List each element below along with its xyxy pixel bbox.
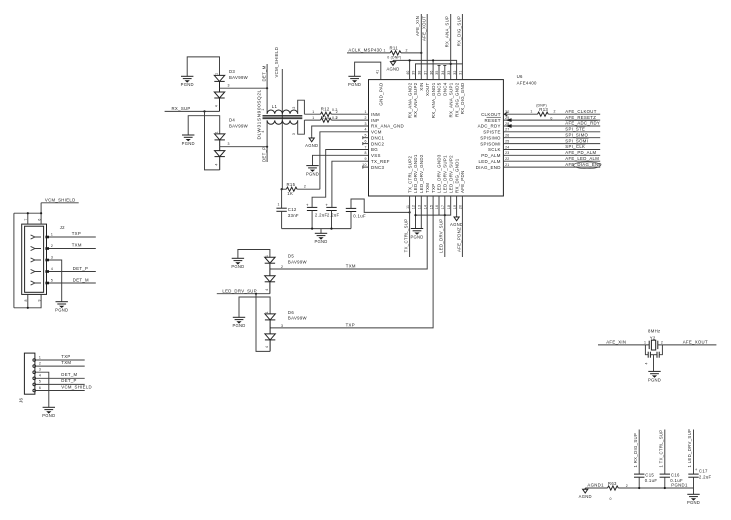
svg-text:SPISTE: SPISTE: [483, 130, 501, 135]
svg-text:DET_M: DET_M: [61, 372, 77, 377]
wire J6 pin4 DET_M: [36, 372, 85, 378]
svg-text:5: 5: [51, 278, 53, 282]
svg-text:8: 8: [364, 151, 366, 155]
svg-text:2: 2: [39, 361, 41, 365]
svg-text:0.1uF: 0.1uF: [353, 214, 366, 219]
ground AGND pin3: [305, 137, 318, 148]
capacitor crystal load left: [645, 345, 654, 365]
svg-text:R13: R13: [539, 107, 548, 112]
svg-text:INM: INM: [371, 112, 380, 117]
svg-text:RX_ANA_SUP2: RX_ANA_SUP2: [413, 82, 418, 117]
U6 DNC3 pin10 stub: [363, 166, 369, 169]
svg-text:33nF: 33nF: [288, 213, 299, 218]
node RX_SUP: [165, 106, 220, 112]
ground AGND pin19: [450, 216, 463, 227]
wire D4 top jog to PGND: [188, 116, 220, 135]
svg-text:AFE_XOUT: AFE_XOUT: [421, 16, 426, 41]
svg-text:RX_ANA_SUP: RX_ANA_SUP: [445, 16, 450, 48]
svg-text:1: 1: [214, 73, 218, 75]
svg-text:2: 2: [364, 116, 366, 120]
wire RX_ANA_GND pin3 to AGND: [312, 126, 369, 137]
svg-text:R14: R14: [321, 115, 330, 120]
wire J6 pin3 to PGND: [36, 368, 49, 408]
svg-text:0 (DNP): 0 (DNP): [387, 56, 401, 60]
node LED_DRV_SUP rail: [217, 288, 270, 295]
svg-text:GND_PAD: GND_PAD: [379, 83, 384, 106]
J2 socket pin 4: [31, 269, 49, 273]
wire pin22 AFE_LED_ALM: [503, 156, 600, 161]
U6 top pin names: [379, 82, 466, 118]
wire L1 pin2 jog to R12: [298, 100, 305, 114]
svg-text:2: 2: [554, 110, 556, 114]
svg-text:2: 2: [626, 484, 628, 488]
svg-text:1: 1: [644, 340, 646, 344]
resistor R11 0 (DNP): [384, 45, 423, 59]
svg-text:2.2uF: 2.2uF: [699, 475, 712, 480]
svg-text:21: 21: [505, 163, 509, 167]
svg-text:1: 1: [530, 110, 532, 114]
svg-text:AFE_LED_ALM: AFE_LED_ALM: [565, 156, 599, 161]
U6 DNC1 pin5 stub: [363, 136, 369, 139]
svg-text:TXP: TXP: [346, 323, 355, 328]
svg-text:AFE_CLKOUT: AFE_CLKOUT: [565, 109, 596, 114]
svg-text:ADC_RDY: ADC_RDY: [478, 124, 501, 129]
capacitor C11 0.1uF: [346, 199, 411, 229]
svg-text:3: 3: [39, 368, 41, 372]
svg-text:3: 3: [364, 122, 366, 126]
svg-text:TXM: TXM: [346, 264, 356, 269]
wire pin25 SPI_SOMI: [503, 138, 600, 143]
svg-text:DNC3: DNC3: [371, 165, 384, 170]
svg-text:0: 0: [610, 497, 612, 501]
svg-text:VCM_SHIELD: VCM_SHIELD: [274, 47, 279, 78]
U6 left pin names: [371, 112, 404, 170]
svg-text:RESET: RESET: [485, 118, 501, 123]
svg-text:C16: C16: [671, 473, 680, 478]
U6 top pin numbers: [375, 70, 462, 75]
svg-text:TX_CTRL_SUP2: TX_CTRL_SUP2: [407, 155, 412, 193]
svg-text:TXP: TXP: [72, 231, 81, 236]
connector J6: [19, 353, 35, 403]
svg-text:22: 22: [505, 157, 509, 161]
wire L1 pin3 jog to R14: [298, 120, 305, 134]
svg-text:VCM_SHIELD: VCM_SHIELD: [45, 198, 76, 203]
svg-text:C12: C12: [288, 207, 297, 212]
ground AGND top rail: [386, 60, 399, 71]
diode D4 BAV99W: [215, 118, 249, 170]
wire VSS pin8 to PGND: [313, 155, 369, 165]
svg-text:INP: INP: [371, 118, 379, 123]
svg-text:1: 1: [51, 232, 53, 236]
svg-text:RX_DIG_SUP: RX_DIG_SUP: [456, 16, 461, 46]
ground PGND below U6: [410, 229, 423, 240]
U6 DNC5 pin35 stub: [438, 66, 441, 80]
ground PGND D4: [182, 135, 195, 146]
diode D3 BAV99W: [214, 69, 248, 111]
svg-text:3: 3: [292, 133, 296, 135]
svg-text:RX_ANA_GND: RX_ANA_GND: [371, 124, 404, 129]
node DET_P: [261, 120, 267, 162]
svg-text:AFE_XIN: AFE_XIN: [415, 16, 420, 36]
svg-text:24: 24: [505, 145, 509, 149]
svg-text:DIAG_END: DIAG_END: [476, 165, 501, 170]
svg-text:1: 1: [215, 131, 219, 133]
svg-text:VCM: VCM: [371, 130, 382, 135]
svg-text:LED_DRV_GND1: LED_DRV_GND1: [413, 154, 418, 193]
wire D3 top loop to PGND: [187, 57, 219, 76]
node VCM_SHIELD at J2: [41, 198, 79, 203]
ground PGND D3: [181, 76, 194, 87]
svg-text:TXM: TXM: [425, 183, 430, 193]
wire J2 pin4 DET_P: [49, 266, 96, 272]
svg-text:25: 25: [505, 139, 509, 143]
svg-text:LED_DRV_GND3: LED_DRV_GND3: [437, 154, 442, 193]
svg-text:1: 1: [265, 311, 269, 313]
svg-text:+: +: [306, 202, 309, 207]
svg-text:4: 4: [51, 267, 53, 271]
IC U6 AFE4400: [369, 74, 538, 196]
svg-text:C15: C15: [645, 473, 654, 478]
wire D6 top jog to PGND: [239, 294, 270, 318]
ground PGND rail: [314, 233, 327, 244]
ground PGND VSS: [306, 166, 319, 177]
J2 socket pin 2: [31, 246, 49, 250]
svg-text:5: 5: [364, 134, 366, 138]
wire LED supply rail below U6: [414, 196, 450, 229]
svg-text:VCM_SHIELD: VCM_SHIELD: [61, 384, 92, 389]
svg-text:C17: C17: [699, 469, 708, 474]
svg-text:LED_ALM: LED_ALM: [479, 159, 501, 164]
capacitor C17 2.2uF: [688, 467, 711, 488]
svg-text:L1: L1: [272, 104, 278, 109]
wire pin24 SPI_CLK: [503, 144, 600, 149]
ground PGND J2 pin3: [55, 302, 68, 313]
svg-text:1 RX_DIG_SUP: 1 RX_DIG_SUP: [633, 433, 638, 468]
node AFE_XOUT at crystal: [658, 340, 717, 345]
svg-text:2.2uF: 2.2uF: [327, 212, 340, 217]
svg-text:8: 8: [24, 299, 28, 301]
svg-text:RX_DIG_GND1: RX_DIG_GND1: [454, 158, 459, 193]
wire AGND rail top: [393, 59, 457, 79]
svg-text:1: 1: [265, 255, 269, 257]
capacitor crystal load right: [654, 345, 663, 358]
svg-text:1: 1: [384, 49, 386, 53]
svg-text:DET_M: DET_M: [261, 65, 266, 81]
svg-text:4: 4: [215, 163, 219, 165]
svg-text:BAV99W: BAV99W: [229, 75, 249, 80]
svg-text:3: 3: [281, 324, 283, 328]
node RX_DIG_SUP: [456, 14, 462, 64]
svg-text:4: 4: [261, 131, 265, 133]
inductor L1 DLW31SN900SQ2L common-mode choke: [256, 89, 302, 139]
svg-text:Y2: Y2: [650, 335, 656, 340]
svg-text:+: +: [695, 467, 698, 472]
wire D5 top loop to PGND: [238, 250, 270, 259]
ground PGND bottom right: [687, 494, 700, 505]
svg-text:R11: R11: [390, 45, 399, 50]
svg-text:DNC5: DNC5: [437, 82, 442, 95]
wire TXP pin15 to D6: [270, 196, 433, 328]
J2 socket pin 3: [31, 258, 49, 262]
svg-text:41: 41: [375, 70, 379, 74]
svg-text:TXP: TXP: [431, 184, 436, 194]
svg-text:4: 4: [364, 128, 366, 132]
U6 right pin names: [476, 112, 501, 170]
svg-text:AFE4400: AFE4400: [517, 81, 537, 86]
svg-text:+: +: [325, 202, 328, 207]
svg-text:23: 23: [505, 151, 509, 155]
svg-text:PD_ALM: PD_ALM: [481, 153, 501, 158]
svg-text:0.1uF: 0.1uF: [645, 478, 658, 483]
U6 right pin numbers: [505, 110, 509, 167]
svg-text:2: 2: [406, 49, 408, 53]
svg-text:XIN: XIN: [419, 83, 424, 91]
node AFE_XIN: [415, 14, 421, 80]
svg-text:6: 6: [39, 386, 41, 390]
svg-text:SCLK: SCLK: [488, 147, 501, 152]
wire D3 tap to DET_M: [220, 84, 269, 90]
node VCM_SHIELD vertical: [274, 47, 283, 189]
wire pin27 SPI_STE: [503, 126, 600, 131]
svg-text:R15: R15: [287, 182, 296, 187]
svg-text:RX_SUP: RX_SUP: [172, 106, 191, 111]
J2 socket pin 5: [31, 281, 49, 285]
svg-text:DNC2: DNC2: [371, 141, 384, 146]
U6 DNC2 pin6 stub: [363, 142, 369, 145]
node LED_DRV_SUP stub pin17: [439, 196, 445, 257]
svg-text:ACLK_MSP430: ACLK_MSP430: [348, 48, 382, 53]
svg-text:1: 1: [312, 110, 314, 114]
svg-text:AGND1: AGND1: [587, 482, 604, 487]
U6 left pin numbers: [362, 110, 366, 167]
wire GND_PAD pin41 to PGND: [355, 62, 381, 80]
wire BG pin7 to cap: [312, 150, 368, 208]
ground PGND crystal: [648, 371, 661, 382]
node ACLK_MSP430: [347, 48, 390, 53]
svg-text:TX_CTRL_SUP: TX_CTRL_SUP: [403, 219, 408, 253]
svg-text:SPI_STE: SPI_STE: [565, 127, 585, 132]
wire J6 pin5 DET_P: [36, 378, 85, 384]
resistor R15 1K: [281, 182, 320, 196]
svg-text:LED_DRV_SUP1: LED_DRV_SUP1: [443, 155, 448, 193]
U6 bottom pin names: [407, 154, 465, 193]
svg-text:BAV99W: BAV99W: [229, 123, 249, 128]
resistor R63 0: [608, 481, 628, 501]
svg-text:1 TX_CTRL_SUP: 1 TX_CTRL_SUP: [659, 430, 664, 468]
svg-text:7: 7: [24, 219, 28, 221]
svg-text:5: 5: [39, 380, 41, 384]
svg-text:6: 6: [364, 139, 366, 143]
svg-text:D6: D6: [288, 310, 294, 315]
node RX_DIG_SUP decoupling: [633, 430, 639, 475]
svg-text:2: 2: [661, 340, 663, 344]
wire J2 pin5 DET_M: [49, 278, 96, 284]
wire RX supply rail top: [416, 63, 463, 80]
wire J6 pin2 TXM: [36, 360, 85, 366]
svg-text:1: 1: [261, 109, 265, 111]
wire pin26 SPI_SIMO: [503, 132, 600, 137]
svg-text:2: 2: [292, 107, 296, 109]
svg-text:2: 2: [304, 185, 306, 189]
wire pin21 AFE_DIAG_END: [503, 162, 601, 169]
capacitor C12 33nF: [276, 189, 299, 228]
node RX_ANA_SUP: [445, 14, 451, 64]
capacitor C13 2.2uF: [306, 202, 328, 228]
node AGND1: [585, 482, 607, 488]
ground AGND bottom left: [579, 488, 592, 499]
wire J2 shield bottom: [14, 294, 41, 309]
ground PGND D6: [232, 317, 245, 328]
crystal Y2 8MHz: [648, 328, 661, 350]
svg-text:DET_P: DET_P: [61, 378, 76, 383]
svg-text:2: 2: [51, 244, 53, 248]
svg-text:1: 1: [278, 202, 280, 206]
svg-text:RX_DIG_GND2: RX_DIG_GND2: [454, 82, 459, 117]
svg-text:SPI_SIMO: SPI_SIMO: [565, 132, 588, 137]
svg-text:DNC4: DNC4: [443, 82, 448, 95]
svg-text:D5: D5: [288, 254, 294, 259]
svg-text:6: 6: [37, 219, 41, 221]
svg-text:J6: J6: [19, 398, 24, 403]
svg-text:D3: D3: [229, 69, 235, 74]
wire J6 pin1 TXP: [36, 354, 85, 360]
wire J6 pin6 VCM_SHIELD: [36, 384, 92, 390]
svg-text:26: 26: [505, 134, 509, 138]
svg-text:2: 2: [336, 116, 338, 120]
svg-text:R12: R12: [321, 106, 330, 111]
ground PGND J6 pin3: [42, 407, 55, 418]
wire J2 pin1 TXP: [49, 231, 96, 237]
node TX_CTRL_SUP stub pin11: [403, 196, 409, 257]
svg-text:DET_P: DET_P: [73, 266, 88, 271]
wire J2 shield left loop: [13, 213, 15, 308]
svg-text:SPISOMI: SPISOMI: [480, 141, 501, 146]
svg-text:DET_P: DET_P: [261, 147, 266, 162]
capacitor C15 0.1uF: [634, 473, 657, 488]
wire J2 pin2 TXM: [49, 243, 96, 249]
svg-text:1: 1: [39, 355, 41, 359]
wire decoupling ground rail: [282, 228, 351, 234]
svg-text:TX_REF: TX_REF: [371, 159, 390, 164]
node TX_CTRL_SUP decoupling: [659, 430, 665, 475]
svg-text:3: 3: [51, 255, 53, 259]
svg-text:BG: BG: [371, 147, 378, 152]
svg-text:TXM: TXM: [61, 360, 71, 365]
svg-text:LED_DRV_SUP: LED_DRV_SUP: [439, 219, 444, 254]
svg-text:LED_DRV_SUP: LED_DRV_SUP: [222, 288, 257, 293]
node AFE_XOUT: [421, 14, 427, 80]
wire D4 tap to DET_P: [220, 142, 269, 148]
svg-text:LED_DRV_GND2: LED_DRV_GND2: [419, 154, 424, 193]
svg-text:RX_ANA_GND2: RX_ANA_GND2: [407, 82, 412, 118]
connector J2: [22, 224, 65, 294]
svg-text:CLKOUT: CLKOUT: [481, 112, 501, 117]
J2 socket pin 1: [31, 235, 49, 239]
svg-text:9: 9: [37, 299, 41, 301]
svg-text:BAV99W: BAV99W: [288, 316, 308, 321]
resistor R12 0.2: [304, 106, 368, 116]
svg-text:1K: 1K: [287, 191, 293, 196]
svg-text:4: 4: [214, 105, 218, 107]
svg-text:2.2uF: 2.2uF: [315, 212, 328, 217]
wire crystal caps to PGND: [653, 355, 655, 372]
svg-text:AFE_PDNZ: AFE_PDNZ: [456, 227, 461, 252]
wire TXM pin14 to D5: [270, 196, 427, 269]
svg-text:AFE_PD_ALM: AFE_PD_ALM: [565, 150, 596, 155]
wire J2 shield top: [14, 203, 42, 224]
svg-text:SPI_SOMI: SPI_SOMI: [565, 138, 588, 143]
svg-text:4: 4: [265, 346, 269, 348]
capacitor C14 2.2uF: [325, 202, 339, 228]
svg-text:TXM: TXM: [72, 243, 82, 248]
U6 DNC4 pin34 stub: [443, 66, 446, 80]
svg-text:PGND1: PGND1: [671, 483, 688, 488]
resistor R13 0 (DNP): [530, 104, 600, 121]
svg-text:4: 4: [39, 374, 41, 378]
svg-text:3: 3: [228, 142, 230, 146]
svg-text:DET_M: DET_M: [73, 278, 89, 283]
svg-text:RX_ANA_SUP1: RX_ANA_SUP1: [448, 82, 453, 117]
svg-text:4: 4: [265, 289, 269, 291]
node AFE_PDNZ stub pin20: [456, 196, 462, 257]
svg-text:2: 2: [281, 265, 283, 269]
svg-text:2: 2: [336, 110, 338, 114]
diode D6 BAV99W: [265, 310, 308, 352]
svg-text:1: 1: [312, 116, 314, 120]
svg-text:VSS: VSS: [371, 153, 381, 158]
node DET_M: [261, 64, 267, 114]
wire pin28 AFE_ADC_RDY: [503, 121, 600, 128]
svg-text:AFE_XOUT: AFE_XOUT: [683, 340, 708, 345]
svg-text:D4: D4: [229, 118, 235, 123]
svg-text:BAV99W: BAV99W: [288, 259, 308, 264]
svg-text:SPI_CLK: SPI_CLK: [565, 144, 585, 149]
wire pin19 to AGND: [456, 196, 458, 216]
ground PGND D5: [231, 258, 244, 269]
svg-text:LED_DRV_SUP2: LED_DRV_SUP2: [448, 155, 453, 193]
svg-text:AFE_RESETZ: AFE_RESETZ: [565, 115, 596, 120]
svg-text:AFE_ADC_RDY: AFE_ADC_RDY: [565, 121, 600, 126]
svg-text:XOUT: XOUT: [425, 83, 430, 96]
svg-text:RX_ANA_GND1: RX_ANA_GND1: [431, 82, 436, 118]
ground PGND pin41: [348, 76, 361, 87]
J6 pin circles: [33, 359, 36, 392]
svg-text:SPISIMO: SPISIMO: [480, 135, 501, 140]
wire D6 bottom loop to LED_DRV_SUP: [256, 294, 270, 352]
wire pin29 AFE_RESETZ: [503, 115, 600, 122]
node AFE_XIN at crystal: [598, 340, 649, 345]
svg-text:J2: J2: [60, 225, 65, 230]
node LED_DRV_SUP decoupling: [687, 429, 693, 474]
resistor R14 0.2: [304, 115, 368, 122]
svg-text:TXP: TXP: [61, 354, 70, 359]
svg-text:4: 4: [645, 362, 649, 364]
svg-text:7: 7: [364, 145, 366, 149]
svg-text:8MHz: 8MHz: [648, 328, 661, 333]
wire VCM pin4 to R15: [320, 132, 369, 189]
svg-text:3: 3: [228, 84, 230, 88]
diode D5 BAV99W: [265, 254, 308, 294]
svg-text:DNC1: DNC1: [371, 135, 384, 140]
svg-text:RX_DIG_GND: RX_DIG_GND: [460, 83, 465, 115]
wire PGND1 rail: [618, 483, 693, 495]
svg-text:R63: R63: [608, 481, 617, 486]
wire pin30 CLKOUT: [503, 112, 537, 116]
svg-text:AFE_PDN: AFE_PDN: [460, 171, 465, 194]
svg-text:1 LED_DRV_SUP: 1 LED_DRV_SUP: [687, 429, 692, 468]
U6 bottom pin numbers: [406, 205, 463, 209]
capacitor C16 0.1uF: [660, 473, 683, 488]
